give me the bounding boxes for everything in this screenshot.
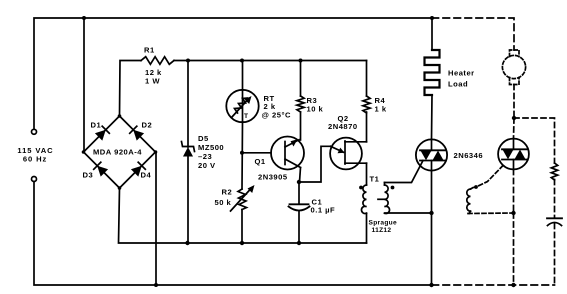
svg-text:1 W: 1 W — [145, 77, 160, 86]
node junction R3 top — [299, 59, 303, 63]
wire R1 output line to R4 corner — [174, 60, 367, 62]
node junction secondary to triac rail — [429, 211, 433, 215]
wire Q1 collector down — [300, 168, 301, 183]
resistor R1 zigzag — [141, 57, 174, 65]
transformer T1 third winding — [467, 187, 476, 214]
wire C1 rail — [298, 182, 300, 204]
svg-text:D4: D4 — [141, 171, 152, 180]
svg-text:D5: D5 — [198, 134, 209, 143]
transformer T1 primary winding — [361, 185, 366, 243]
wire R3 to Q1 emitter — [300, 112, 302, 140]
svg-text:2N4870: 2N4870 — [328, 122, 358, 131]
wire winding3 to triac2 rail dashed — [468, 212, 514, 215]
bridge rectifier MDA 920A-4 diamond — [84, 116, 156, 188]
wire bridge left corner to top bus — [83, 18, 85, 152]
wire left rail lower — [34, 182, 432, 286]
transformer T1 core tick — [378, 198, 385, 200]
triac Q3 internals — [420, 140, 445, 171]
wire negative dc bus — [119, 188, 367, 243]
diode D1 — [95, 126, 109, 140]
wire top bus dashed to motor — [432, 18, 514, 50]
wire RT rail top — [242, 61, 244, 91]
terminal upper plug circle — [32, 129, 37, 134]
svg-text:2N3905: 2N3905 — [258, 173, 288, 182]
wire Q2 B1 to T1 primary — [366, 163, 368, 185]
node junction zener bottom — [185, 241, 189, 245]
wire triac2 down dashed — [513, 213, 515, 285]
triac Q4 circle — [498, 139, 529, 170]
triac Q4 internals — [502, 139, 527, 170]
svg-text:MDA 920A-4: MDA 920A-4 — [93, 148, 142, 157]
wire triac2 to gate winding junction dashed — [513, 170, 515, 214]
svg-text:T: T — [244, 113, 248, 120]
wire bottom bus dashed — [432, 284, 555, 286]
node junction triac2 bottom — [511, 283, 515, 287]
wire top bus solid — [34, 18, 432, 129]
resistor R4 zigzag — [363, 96, 370, 113]
wire heater to triac1 — [431, 95, 434, 140]
resistor R4 rail — [366, 61, 368, 97]
capacitor C1 — [289, 204, 310, 243]
transformer T1 secondary phasing dot — [391, 186, 395, 190]
wire to triac2 dashed — [513, 118, 516, 139]
node junction winding3 bottom — [511, 211, 515, 215]
svg-text:@ 25°C: @ 25°C — [262, 111, 291, 120]
wire R4 to Q2 B2 — [366, 112, 368, 142]
wire heater rail top — [431, 18, 433, 50]
svg-text:11Z12: 11Z12 — [372, 227, 392, 234]
node junction top bus / bridge left — [82, 16, 86, 20]
transistor Q2 circle UJT — [330, 138, 362, 170]
diode D2 — [130, 126, 144, 140]
snubber capacitor — [547, 218, 562, 225]
heater load meander — [425, 50, 440, 95]
wire bridge right corner to bottom bus — [155, 152, 157, 285]
thermistor RT zigzag and arrow — [232, 96, 252, 118]
node junction RT top — [240, 59, 244, 63]
wire R3 rail — [300, 61, 302, 97]
transistor Q2 internals — [331, 141, 367, 164]
snubber wire dashed mid — [554, 180, 556, 219]
wire triac2 gate dashed — [478, 166, 504, 187]
svg-text:D3: D3 — [83, 171, 94, 180]
wire motor to junction dashed — [513, 85, 515, 119]
svg-text:1 k: 1 k — [375, 105, 387, 114]
svg-text:–23: –23 — [198, 152, 212, 161]
snubber wire dashed bottom — [554, 224, 556, 286]
wire triac1 to bottom bus — [431, 171, 433, 286]
zener diode D5 — [182, 142, 195, 157]
wire zener rail — [187, 61, 189, 148]
transistor Q1 circle — [271, 137, 304, 170]
wire RT to R2 rail — [241, 122, 244, 189]
node junction Q1 collector / C1 — [297, 180, 301, 184]
node junction bottom bus / bridge right — [154, 283, 158, 287]
rheostat R2 arrow — [231, 189, 252, 212]
node junction Q1 base tap — [240, 151, 244, 155]
wire bridge top to R1 — [120, 61, 142, 117]
svg-text:50 k: 50 k — [215, 198, 232, 207]
node junction snubber tap — [512, 116, 516, 120]
terminal lower plug circle — [32, 177, 37, 182]
node junction top bus / heater rail — [430, 16, 434, 20]
thermistor RT circle — [226, 90, 258, 122]
node junction zener top — [186, 59, 190, 63]
svg-text:Q1: Q1 — [255, 157, 266, 166]
wire triac1 gate — [385, 161, 424, 183]
snubber resistor zigzag — [551, 163, 557, 180]
snubber wire dashed top — [514, 118, 555, 163]
node junction R2 bottom — [240, 241, 244, 245]
transformer T1 third winding phasing dot — [474, 185, 478, 189]
wire Q1 base — [242, 152, 271, 154]
triac Q3 2N6346 circle — [416, 139, 447, 170]
wire L link to Q2 emitter — [299, 146, 331, 182]
wire R2 to neg bus — [241, 210, 243, 244]
svg-text:MZ500: MZ500 — [198, 143, 224, 152]
svg-text:0.1 µF: 0.1 µF — [311, 206, 336, 215]
transistor Q1 internals — [285, 139, 301, 167]
transformer T1 secondary winding — [385, 183, 432, 214]
svg-text:R1: R1 — [144, 46, 155, 55]
svg-text:R2: R2 — [222, 188, 233, 197]
svg-text:Sprague: Sprague — [369, 220, 398, 227]
svg-text:20 V: 20 V — [198, 161, 216, 170]
transformer T1 primary phasing dot — [359, 186, 363, 190]
diode D4 — [131, 162, 145, 176]
svg-text:Load: Load — [448, 80, 468, 89]
node junction C1 bottom — [297, 241, 301, 245]
svg-text:D1: D1 — [91, 121, 102, 130]
svg-text:T1: T1 — [370, 175, 380, 184]
svg-text:60 Hz: 60 Hz — [23, 154, 47, 163]
rheostat R2 zigzag — [238, 189, 247, 210]
node junction bottom bus / triac rail — [429, 283, 433, 287]
svg-text:10 k: 10 k — [307, 105, 324, 114]
motor symbol dashed — [502, 50, 525, 85]
svg-text:2N6346: 2N6346 — [454, 151, 484, 160]
svg-text:Heater: Heater — [448, 69, 475, 78]
diode D3 — [94, 162, 108, 176]
svg-text:D2: D2 — [142, 121, 153, 130]
resistor R3 zigzag — [297, 96, 304, 112]
